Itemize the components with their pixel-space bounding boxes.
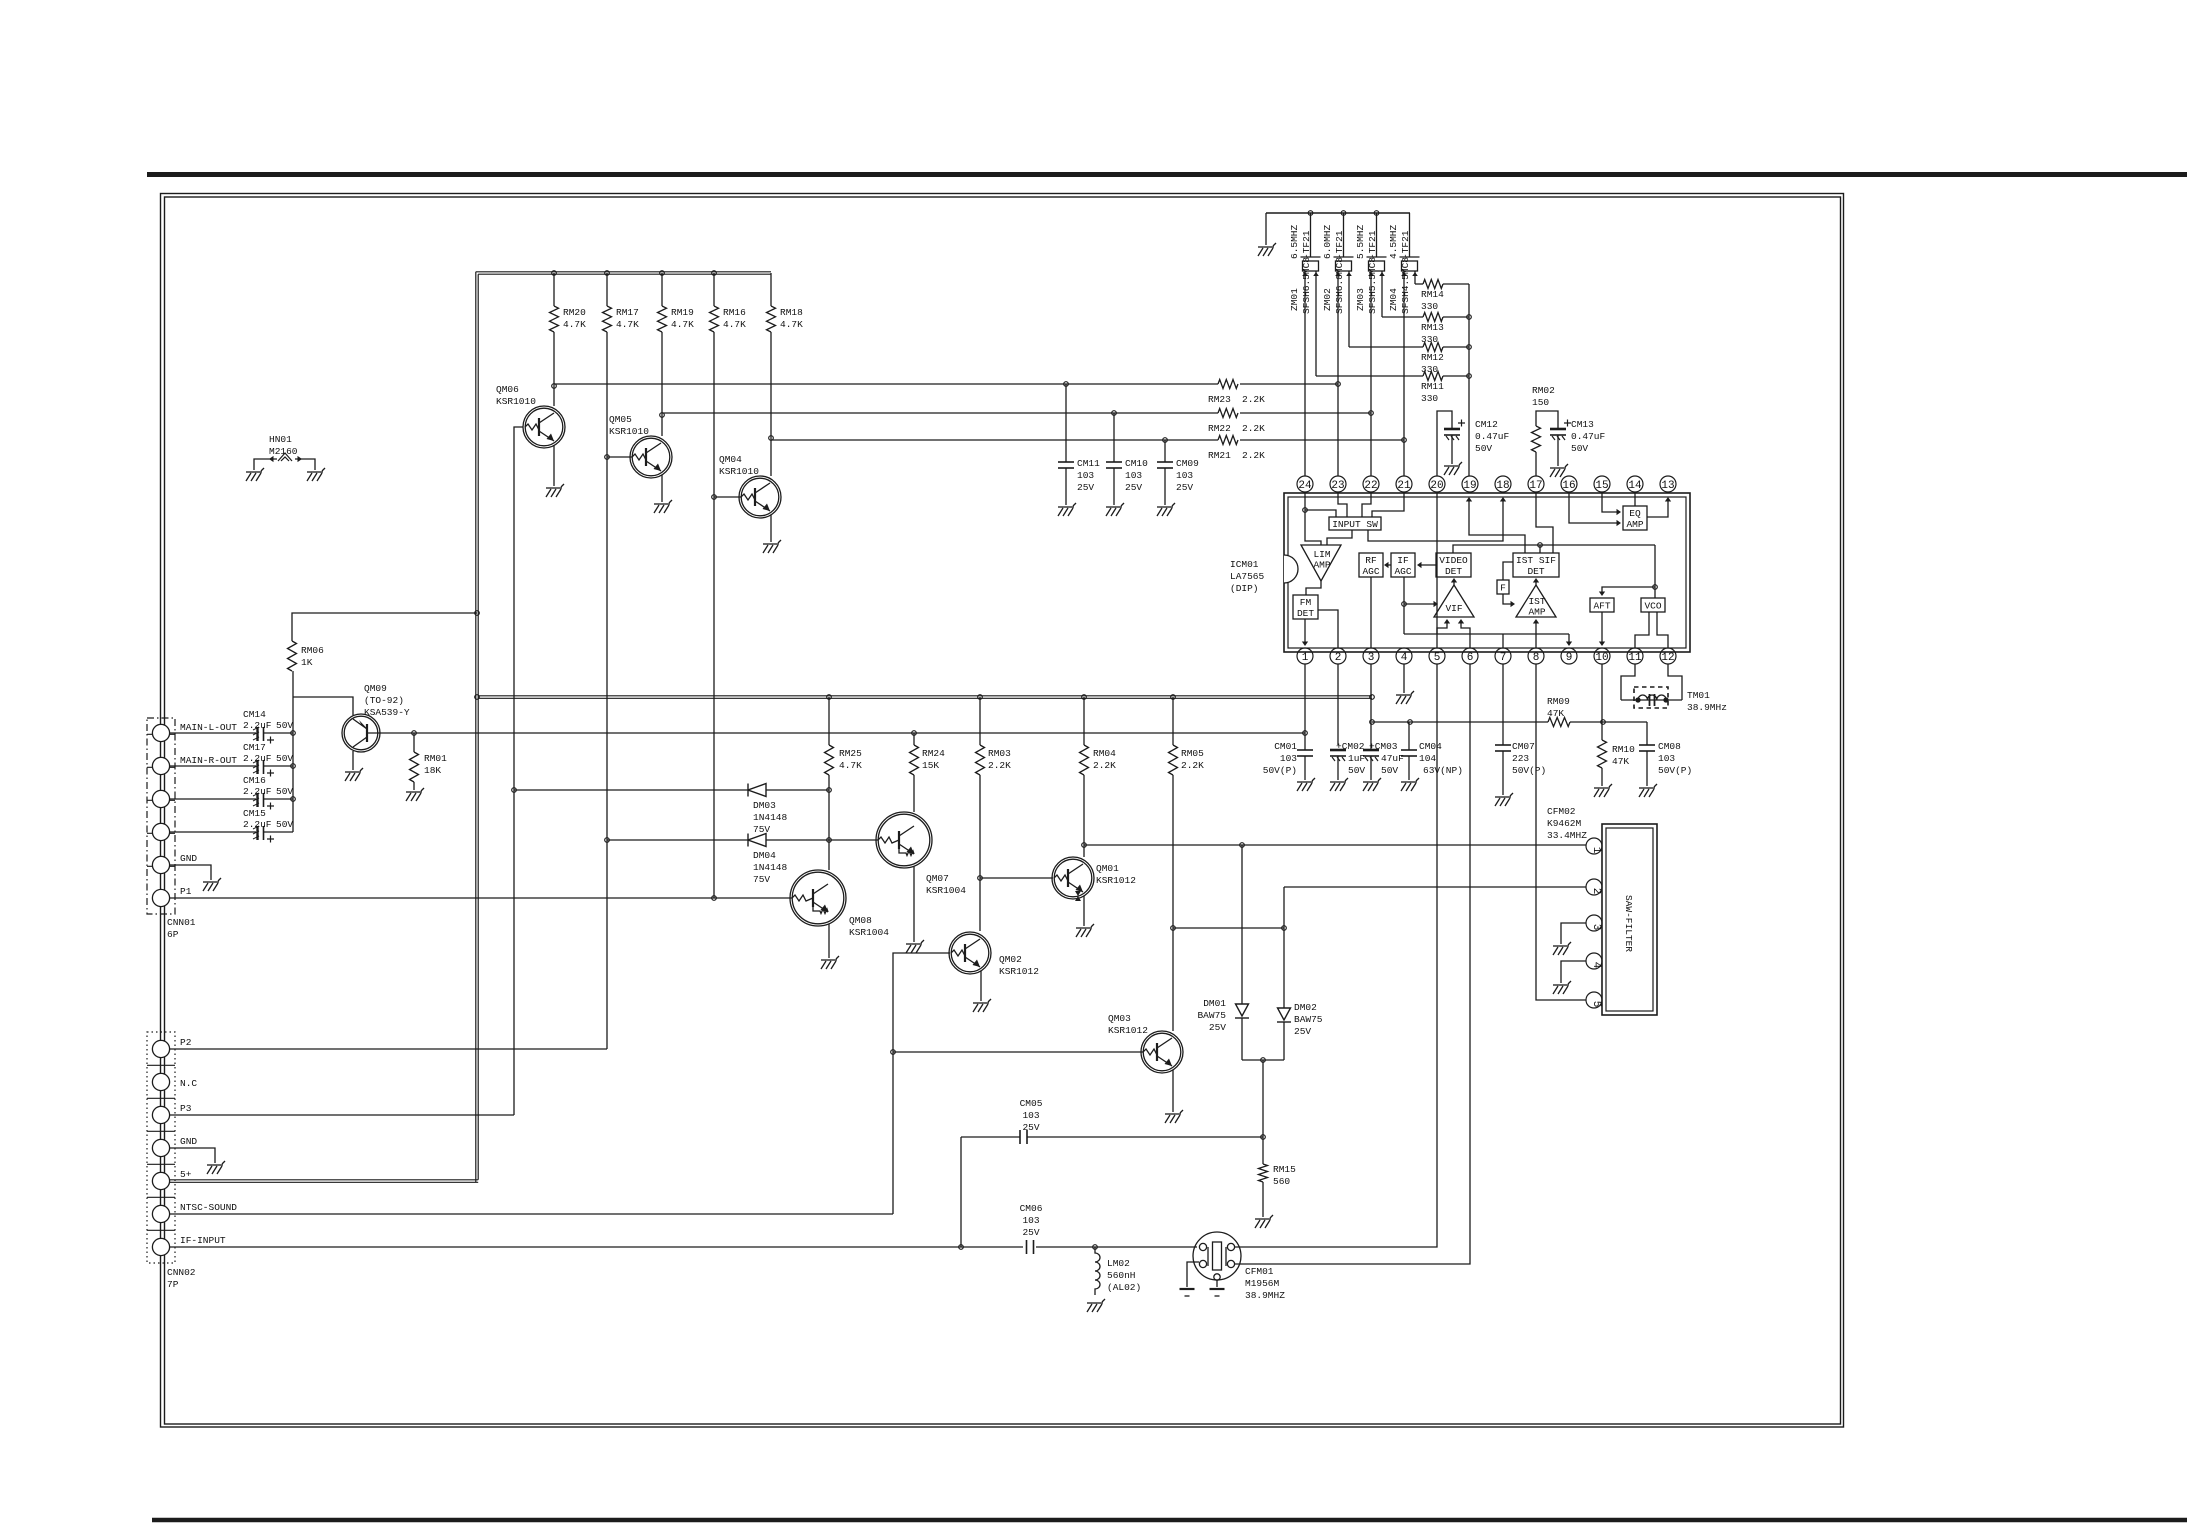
- wire RM03 to QM02: [979, 775, 981, 931]
- svg-text:4.7K: 4.7K: [616, 319, 639, 330]
- label CM05: [1020, 1098, 1043, 1133]
- wire QM09 base line (audio out): [367, 732, 1305, 734]
- svg-text:4.7K: 4.7K: [839, 760, 862, 771]
- svg-text:AGC: AGC: [1394, 566, 1411, 577]
- svg-text:4.7K: 4.7K: [780, 319, 803, 330]
- junction QM05 base: [605, 455, 610, 460]
- diode DM04: [748, 834, 766, 847]
- wire INPUT SW to pin18: [1368, 499, 1503, 541]
- IC pin 3: [1363, 648, 1379, 664]
- IC pin 12: [1660, 648, 1676, 664]
- svg-text:P1: P1: [180, 886, 192, 897]
- svg-text:FM: FM: [1300, 597, 1312, 608]
- junction DM03 right: [827, 788, 832, 793]
- wire DM02 column: [1283, 887, 1285, 1008]
- wire CM04 bottom: [1408, 756, 1410, 780]
- svg-text:50V: 50V: [1381, 765, 1398, 776]
- wire pin21 to INPUT SW: [1372, 493, 1404, 517]
- net label MAIN-L-OUT: [180, 722, 237, 733]
- svg-text:CM14: CM14: [243, 709, 266, 720]
- svg-text:25V: 25V: [1294, 1026, 1311, 1037]
- svg-text:SAW-FILTER: SAW-FILTER: [1623, 895, 1634, 952]
- IC pin 16: [1561, 476, 1577, 492]
- block INPUT SW: [1329, 517, 1381, 530]
- svg-text:DET: DET: [1527, 566, 1544, 577]
- wire RM12 right: [1443, 346, 1469, 348]
- wire DM02 bottom: [1283, 1022, 1285, 1060]
- wire CM10 top: [1113, 413, 1115, 462]
- wire IF AGC to RF AGC arrow: [1386, 564, 1391, 566]
- wire RM14 right: [1443, 283, 1469, 285]
- CNN01 pin 1 MAIN-L-OUT: [152, 724, 169, 741]
- label QM02: [999, 954, 1039, 977]
- svg-text:13: 13: [1661, 480, 1674, 492]
- label CNN02: [167, 1267, 196, 1290]
- label RM20: [563, 307, 586, 330]
- svg-text:2.2K: 2.2K: [1242, 394, 1265, 405]
- resistor RM11: [1423, 372, 1443, 381]
- label DM03: [753, 800, 788, 835]
- net label GND CNN01: [180, 853, 197, 864]
- junction RM11 bus: [1467, 374, 1472, 379]
- svg-text:CM04: CM04: [1419, 741, 1442, 752]
- wire FM DET to pin2: [1318, 610, 1338, 648]
- svg-text:0.47uF: 0.47uF: [1475, 431, 1510, 442]
- svg-text:1K: 1K: [301, 657, 313, 668]
- ground SAW pin3: [1553, 942, 1571, 955]
- wire pin8 column to SAW pin5: [1536, 664, 1586, 1000]
- wire to AFT: [1602, 587, 1655, 593]
- svg-text:LA7565: LA7565: [1230, 571, 1265, 582]
- block VIF triangle: [1434, 585, 1474, 617]
- svg-text:20: 20: [1430, 480, 1443, 492]
- wire RM17/QM05 base column: [606, 332, 608, 1049]
- svg-text:23: 23: [1331, 480, 1344, 492]
- wire ZM01 center drop: [1310, 213, 1312, 257]
- svg-text:3: 3: [1368, 652, 1375, 664]
- label RM05: [1181, 748, 1204, 771]
- svg-text:7P: 7P: [167, 1279, 179, 1290]
- wire RM11 left: [1316, 375, 1423, 377]
- wire pin10 column: [1601, 664, 1603, 740]
- svg-text:QM03: QM03: [1108, 1013, 1131, 1024]
- svg-text:ZM02: ZM02: [1322, 288, 1333, 311]
- svg-text:24: 24: [1298, 480, 1312, 492]
- wire RM11 right: [1443, 375, 1469, 377]
- junction DM join: [1261, 1058, 1266, 1063]
- svg-text:CM13: CM13: [1571, 419, 1594, 430]
- value label CM14: [243, 720, 293, 731]
- svg-text:RM22: RM22: [1208, 423, 1231, 434]
- label ZM01 rotated: [1289, 224, 1312, 314]
- svg-text:RM05: RM05: [1181, 748, 1204, 759]
- wire pin2 column: [1337, 664, 1339, 745]
- block LIM AMP triangle: [1301, 545, 1341, 581]
- svg-text:50V(P): 50V(P): [1512, 765, 1546, 776]
- wire CNN01 GND: [170, 865, 211, 880]
- ground HN01 right: [307, 468, 325, 481]
- ground CM02: [1330, 778, 1348, 791]
- block IF AGC: [1391, 553, 1415, 577]
- svg-text:RM10: RM10: [1612, 744, 1635, 755]
- svg-text:50V(P): 50V(P): [1658, 765, 1692, 776]
- svg-text:CM11: CM11: [1077, 458, 1100, 469]
- CNN01 pin 4: [152, 823, 169, 840]
- ground CM01: [1297, 778, 1315, 791]
- wire RM21 net (pin21): [771, 439, 1218, 441]
- svg-text:KSR1010: KSR1010: [496, 396, 536, 407]
- svg-text:AMP: AMP: [1313, 560, 1330, 571]
- svg-text:330: 330: [1421, 334, 1438, 345]
- svg-text:P2: P2: [180, 1037, 192, 1048]
- svg-text:4.7K: 4.7K: [671, 319, 694, 330]
- ceramic filter CFM01: [1193, 1232, 1241, 1280]
- svg-text:DM02: DM02: [1294, 1002, 1317, 1013]
- ground QM05: [654, 500, 672, 513]
- label CM16: [243, 775, 266, 786]
- wire ZM03 center drop: [1376, 213, 1378, 257]
- svg-text:2: 2: [1590, 888, 1602, 895]
- net label IF-INPUT: [180, 1235, 226, 1246]
- svg-text:RM11: RM11: [1421, 381, 1444, 392]
- svg-text:25V: 25V: [1077, 482, 1094, 493]
- wire RM25 top: [828, 697, 830, 745]
- wire RM04 to QM01: [1083, 775, 1085, 857]
- wire pin5 column: [1235, 664, 1437, 1247]
- svg-text:50V: 50V: [1348, 765, 1365, 776]
- wire CM11 top: [1065, 384, 1067, 462]
- wire DM03 right: [766, 789, 829, 791]
- wire pin12 to TM01: [1668, 664, 1682, 700]
- wire CFM01 lower-left to ground: [1187, 1262, 1199, 1287]
- label CM02: [1336, 741, 1365, 776]
- wire CM15 row: [170, 831, 256, 833]
- wire SAW pin3 stub: [1561, 923, 1586, 944]
- wire 5V top bus: [476, 272, 771, 274]
- wire drop IST SIF DET: [1539, 545, 1541, 553]
- IC pin 10: [1594, 648, 1610, 664]
- svg-text:25V: 25V: [1022, 1227, 1039, 1238]
- svg-text:14: 14: [1628, 480, 1642, 492]
- svg-text:KSR1012: KSR1012: [1096, 875, 1136, 886]
- wire pin7 column: [1502, 664, 1504, 745]
- wire pin20 to CM12: [1437, 411, 1452, 476]
- wire RM01 top: [413, 733, 415, 752]
- wire RM16/QM04 base column: [713, 332, 715, 898]
- wire F to IST SIF DET: [1503, 562, 1513, 580]
- label CM03: [1369, 741, 1404, 776]
- capacitor CM05: [1020, 1130, 1027, 1144]
- junction CM05 branch: [959, 1245, 964, 1250]
- IC pin 13: [1660, 476, 1676, 492]
- svg-text:N.C: N.C: [180, 1078, 197, 1089]
- svg-text:CM09: CM09: [1176, 458, 1199, 469]
- junction RM21 pin21: [1402, 438, 1407, 443]
- transistor QM05: [630, 436, 672, 478]
- svg-text:RM25: RM25: [839, 748, 862, 759]
- svg-text:8: 8: [1533, 652, 1540, 664]
- svg-text:6: 6: [1467, 652, 1474, 664]
- ground QM06: [546, 484, 564, 497]
- svg-text:SFSH5.5MC8: SFSH5.5MC8: [1367, 257, 1378, 314]
- wire HN01 left segment: [254, 459, 277, 470]
- wire pin19 internal: [1469, 499, 1525, 553]
- svg-text:50V: 50V: [276, 819, 293, 830]
- ground ZM bus: [1258, 243, 1276, 256]
- label RM19: [671, 307, 694, 330]
- label RM13: [1421, 322, 1444, 345]
- svg-text:103: 103: [1022, 1110, 1039, 1121]
- capacitor CM15: [253, 826, 264, 840]
- svg-text:11: 11: [1628, 652, 1642, 664]
- block F: [1497, 580, 1509, 594]
- junction DM04 left: [605, 838, 610, 843]
- label QM06: [496, 384, 536, 407]
- capacitor CM06: [1027, 1240, 1034, 1254]
- svg-text:5.5MHZ: 5.5MHZ: [1355, 224, 1366, 259]
- wire RM05 to QM03: [1172, 775, 1174, 1031]
- label CM06: [1020, 1203, 1043, 1238]
- wire video out line: [1372, 721, 1548, 723]
- svg-text:CM16: CM16: [243, 775, 266, 786]
- wire CM07 bottom: [1502, 751, 1504, 795]
- wire VIDEO DET to IF AGC arrow: [1419, 564, 1436, 566]
- ground QM08: [821, 956, 839, 969]
- svg-text:SFSH6.0MC8: SFSH6.0MC8: [1334, 257, 1345, 314]
- svg-text:50V: 50V: [276, 720, 293, 731]
- resistor RM06: [288, 641, 297, 671]
- wire CFM01 bottom pin: [1216, 1280, 1218, 1287]
- junction RM22 pin22: [1369, 411, 1374, 416]
- IC pin 11: [1627, 648, 1643, 664]
- svg-text:25V: 25V: [1125, 482, 1142, 493]
- svg-text:RM17: RM17: [616, 307, 639, 318]
- wire DM01 column: [1241, 845, 1243, 1004]
- svg-text:4.7K: 4.7K: [723, 319, 746, 330]
- junction pin3 722: [1370, 720, 1375, 725]
- svg-text:560nH: 560nH: [1107, 1270, 1136, 1281]
- svg-text:330: 330: [1421, 301, 1438, 312]
- svg-text:25V: 25V: [1022, 1122, 1039, 1133]
- svg-text:-TF21: -TF21: [1334, 230, 1345, 259]
- capacitor CM07: [1495, 745, 1511, 751]
- net label P1: [180, 886, 192, 897]
- wire pin17 RM02 bracket: [1536, 411, 1558, 429]
- schematic border inner: [165, 197, 1841, 1424]
- wire CM03 bottom: [1370, 756, 1372, 780]
- IC pin 9: [1561, 648, 1577, 664]
- svg-text:P3: P3: [180, 1103, 192, 1114]
- svg-text:-TF21: -TF21: [1301, 230, 1312, 259]
- QM01 pair marker: [1075, 891, 1081, 901]
- resistor RM13: [1423, 313, 1443, 322]
- CNN01 pin 5 GND: [152, 856, 169, 873]
- wire pin6 to VIF: [1461, 622, 1470, 648]
- ceramic filter ZM04: [1400, 257, 1420, 271]
- wire RM04 top: [1083, 697, 1085, 745]
- ground QM03: [1165, 1110, 1183, 1123]
- svg-text:CM01: CM01: [1274, 741, 1297, 752]
- diode DM03: [748, 784, 766, 797]
- svg-text:1N4148: 1N4148: [753, 862, 788, 873]
- wire IST AMP to IST SIF DET: [1535, 580, 1537, 585]
- junction QM04 collector: [769, 436, 774, 441]
- svg-text:M2160: M2160: [269, 446, 298, 457]
- wire INPUT SW to LIM AMP: [1327, 530, 1352, 545]
- label CM04: [1419, 741, 1463, 776]
- op-amp IC ICM01 LA7565 body: [1284, 493, 1690, 652]
- wire RM16 top lead: [713, 273, 715, 306]
- wire CM14 row right: [264, 732, 293, 734]
- svg-text:75V: 75V: [753, 824, 770, 835]
- svg-text:2.2K: 2.2K: [1181, 760, 1204, 771]
- wire CM16 row right: [264, 798, 293, 800]
- svg-text:5: 5: [1590, 1001, 1602, 1008]
- svg-text:AFT: AFT: [1593, 601, 1610, 612]
- svg-text:RM02: RM02: [1532, 385, 1555, 396]
- junction RM06 5V bus: [475, 611, 480, 616]
- IC pin 21: [1396, 476, 1412, 492]
- svg-text:AMP: AMP: [1626, 519, 1643, 530]
- svg-text:103: 103: [1280, 753, 1297, 764]
- block EQ AMP: [1623, 506, 1647, 530]
- wire DM01 DM02 join: [1242, 1059, 1284, 1061]
- ground CM08: [1639, 784, 1657, 797]
- svg-text:BAW75: BAW75: [1294, 1014, 1323, 1025]
- ceramic filter ZM03: [1367, 257, 1387, 271]
- junction CM04 top: [1408, 720, 1413, 725]
- svg-text:QM06: QM06: [496, 384, 519, 395]
- svg-text:MAIN-R-OUT: MAIN-R-OUT: [180, 755, 237, 766]
- wire 5V horizontal from CNN02: [170, 1180, 478, 1183]
- label QM03: [1108, 1013, 1148, 1036]
- wire pin24 internal jog: [1305, 510, 1336, 517]
- label RM21: [1208, 450, 1231, 461]
- wire CM08 bottom: [1646, 751, 1648, 786]
- wire ZM04 left leg to pin21: [1403, 271, 1405, 476]
- wire pin6 column: [1235, 664, 1470, 1264]
- capacitor CM17: [253, 760, 264, 774]
- label CM15: [243, 808, 266, 819]
- ground CNN01: [203, 878, 221, 891]
- diode DM01: [1235, 1004, 1249, 1018]
- svg-text:CFM02: CFM02: [1547, 806, 1576, 817]
- svg-text:AGC: AGC: [1362, 566, 1379, 577]
- capacitor CM10: [1106, 462, 1122, 468]
- wire CM16 row: [170, 798, 256, 800]
- label RM12: [1421, 352, 1444, 375]
- svg-text:6P: 6P: [167, 929, 179, 940]
- net label N.C: [180, 1078, 197, 1089]
- svg-text:ZM01: ZM01: [1289, 288, 1300, 311]
- svg-text:VCO: VCO: [1644, 601, 1661, 612]
- CNN02 pin 5+: [152, 1172, 169, 1189]
- bottom rule: [152, 1518, 2187, 1523]
- svg-text:4.7K: 4.7K: [563, 319, 586, 330]
- wire CM03 top: [1370, 745, 1372, 750]
- wire pin7 drop: [1502, 634, 1504, 648]
- wire pin11 to TM01: [1621, 664, 1635, 700]
- wire RM15 bottom: [1262, 1182, 1264, 1217]
- svg-text:BAW75: BAW75: [1197, 1010, 1226, 1021]
- value label CM17: [243, 753, 293, 764]
- svg-text:+CM03: +CM03: [1369, 741, 1398, 752]
- wire RM19 top lead: [661, 273, 663, 306]
- svg-text:1N4148: 1N4148: [753, 812, 788, 823]
- svg-text:RM15: RM15: [1273, 1164, 1296, 1175]
- junction ZM bus ZM03: [1374, 211, 1379, 216]
- transistor QM06: [523, 406, 565, 448]
- junction DM01 top: [1240, 843, 1245, 848]
- wire CM13 bottom: [1557, 435, 1559, 466]
- wire AFT to pin10: [1601, 612, 1603, 643]
- svg-text:2.2K: 2.2K: [988, 760, 1011, 771]
- resonator TM01: [1621, 687, 1682, 708]
- label CM07: [1512, 741, 1546, 776]
- svg-text:RM06: RM06: [301, 645, 324, 656]
- junction DM02 QM03: [1282, 926, 1287, 931]
- label DM02: [1294, 1002, 1323, 1037]
- IC pin 24: [1297, 476, 1313, 492]
- transistor QM09: [342, 714, 380, 752]
- label RM06: [301, 645, 324, 668]
- junction AFT rail: [1653, 585, 1658, 590]
- wire pin20 internal: [1436, 493, 1438, 634]
- label ZM02 rotated: [1322, 224, 1345, 314]
- label QM05: [609, 414, 649, 437]
- label ZM03 rotated: [1355, 224, 1378, 314]
- svg-text:IF-INPUT: IF-INPUT: [180, 1235, 226, 1246]
- resistor RM01: [410, 752, 419, 782]
- resistor RM23: [1218, 380, 1238, 389]
- ground SAW pin4: [1553, 981, 1571, 994]
- wire SAW pin2 net: [1284, 886, 1586, 888]
- wire VCO to pin12: [1657, 612, 1668, 648]
- svg-text:MAIN-L-OUT: MAIN-L-OUT: [180, 722, 237, 733]
- wire P1 line: [170, 897, 792, 899]
- capacitor CM12: [1444, 429, 1460, 440]
- connector CNN02 body: [147, 1032, 175, 1263]
- wire RM10: [1601, 739, 1603, 741]
- svg-text:RM14: RM14: [1421, 289, 1444, 300]
- label TM01: [1687, 690, 1727, 713]
- resistor RM20: [550, 306, 559, 332]
- ground CFM01 left: [1180, 1289, 1195, 1296]
- resistor RM03: [976, 745, 985, 775]
- resistor RM18: [767, 306, 776, 332]
- wire QM01 base: [980, 877, 1053, 879]
- label CM12: [1475, 419, 1510, 454]
- wire RM10 bottom: [1601, 768, 1603, 786]
- wire CM11 bottom: [1065, 468, 1067, 505]
- wire pin1 column: [1304, 664, 1306, 745]
- svg-text:50V: 50V: [276, 753, 293, 764]
- CNN02 pin P3: [152, 1106, 169, 1123]
- wire VIF to VIDEO DET: [1453, 580, 1455, 585]
- transistor QM03: [1141, 1031, 1183, 1073]
- wire ZM04 right leg: [1414, 271, 1416, 284]
- svg-text:18K: 18K: [424, 765, 441, 776]
- label RM23: [1208, 394, 1231, 405]
- junction 5V main bus: [475, 695, 480, 700]
- IC pin 18: [1495, 476, 1511, 492]
- capacitor CM08: [1639, 745, 1655, 751]
- svg-text:RM12: RM12: [1421, 352, 1444, 363]
- svg-text:ZM04: ZM04: [1388, 288, 1399, 311]
- wire QM06 emitter: [553, 445, 555, 486]
- transistor QM08: [790, 870, 846, 926]
- value label CM16: [243, 786, 293, 797]
